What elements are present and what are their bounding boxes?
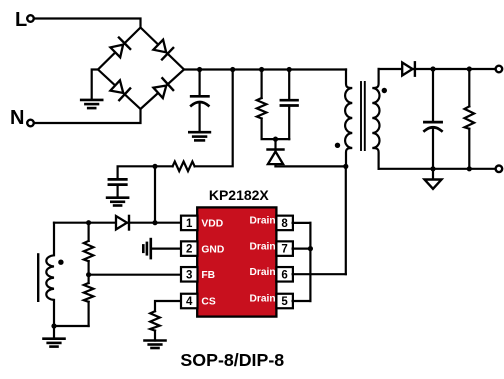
wire secondary bottom rail (379, 168, 496, 170)
diode D1 bridge top-left (110, 38, 130, 59)
node junction rail-snubberC (287, 67, 292, 72)
wire CS resistor to ground (154, 331, 156, 341)
wire divider middle (87, 261, 89, 283)
pin 2 box (181, 241, 198, 256)
pin 5 box (276, 294, 293, 309)
svg-text:1: 1 (186, 218, 193, 230)
wire snubber C bottom lead (288, 106, 290, 140)
wire output resistor top lead (468, 69, 470, 106)
resistor R6 output load (465, 106, 475, 128)
node junction vdd feed / vdd line (152, 164, 157, 169)
diode D4 bridge bottom-right (153, 78, 173, 99)
svg-text:KP2182X: KP2182X (209, 187, 270, 203)
terminal N (27, 120, 34, 127)
ground (VDD bypass cap) (107, 198, 128, 206)
wire resistor to cap corner (118, 166, 173, 179)
diode D5 VDD rectifier (116, 216, 129, 230)
wire pin 2 to ground (151, 248, 181, 250)
diode D2 bridge top-right (153, 39, 173, 60)
aux winding T2 with leads (46, 223, 54, 326)
wire bridge left vertex to ground (92, 70, 98, 100)
wire snubber C top lead (288, 70, 290, 101)
terminal output plus (496, 66, 503, 73)
wire VDD feed from rail down and left (195, 70, 233, 167)
wire drain riser vertical (345, 166, 347, 274)
wire aux bottom (54, 325, 89, 327)
diode D7 output rectifier (402, 62, 415, 75)
transformer T1 primary winding (345, 70, 352, 167)
svg-text:Drain: Drain (250, 216, 276, 227)
wire clamp diode stub (274, 139, 276, 166)
node junction pin7-bus (308, 246, 313, 251)
bridge rectifier diamond wires (98, 28, 184, 110)
wire drain bus vertical (309, 223, 311, 301)
wire pin 7 to drain bus (293, 248, 311, 250)
wire output resistor bottom lead (468, 129, 470, 169)
wire pin 5 to drain bus (293, 300, 311, 302)
node junction aux ground (51, 323, 56, 328)
wire divider top lead (87, 223, 89, 241)
wire snubber R top lead (261, 70, 263, 99)
svg-text:6: 6 (281, 269, 287, 281)
node junction outcap bottom (430, 166, 435, 171)
svg-text:7: 7 (281, 244, 287, 256)
wire N to bridge bottom (35, 109, 141, 123)
node junction outcap top (430, 66, 435, 71)
svg-text:SOP-8/DIP-8: SOP-8/DIP-8 (180, 350, 284, 370)
svg-text:CS: CS (201, 297, 215, 308)
ground (pin 2, rotated) (143, 239, 151, 258)
node junction outres bottom (467, 166, 472, 171)
pin 3 box (181, 267, 198, 282)
pin 6 box (276, 267, 293, 282)
wire drain node horizontal (276, 165, 346, 167)
node junction FB tap (86, 272, 91, 277)
wire L to bridge top (35, 19, 141, 28)
capacitor C4 output (polarized) (424, 122, 441, 131)
svg-text:2: 2 (186, 244, 192, 256)
wire DC top rail (184, 68, 346, 70)
svg-text:Drain: Drain (250, 241, 276, 252)
transformer T1 secondary phase dot (382, 88, 387, 93)
wire bulk cap top lead (199, 70, 201, 97)
node junction rail-bulkcap (197, 67, 202, 72)
svg-text:3: 3 (186, 269, 192, 281)
wire snubber R bottom lead and clamp bottom (262, 119, 290, 140)
node junction outres top (467, 66, 472, 71)
node junction divider top (86, 220, 91, 225)
transformer T1 primary phase dot (335, 143, 340, 148)
transformer T1 core lines (361, 82, 365, 150)
transformer T1 secondary winding (372, 69, 379, 169)
node junction rail-vddfeed (230, 67, 235, 72)
wire bulk cap bottom lead (199, 103, 201, 132)
aux winding phase dot (58, 260, 63, 265)
resistor R1 VDD feed (173, 162, 195, 172)
aux winding core bar (37, 254, 39, 300)
capacitor C1 bulk (polarized) (191, 96, 208, 105)
svg-text:VDD: VDD (201, 219, 223, 230)
wire stub to ground (53, 326, 55, 339)
terminal L (27, 15, 34, 22)
ground (CS) (145, 341, 166, 349)
svg-text:4: 4 (186, 296, 193, 308)
capacitor C2 VDD bypass (109, 179, 126, 184)
resistor R2 divider upper (84, 241, 94, 261)
ground (secondary, triangle) (425, 180, 442, 189)
node junction vdd line / feed (152, 220, 157, 225)
ground (aux winding) (44, 339, 65, 347)
wire VDD line to pin 1 (54, 222, 181, 224)
svg-text:8: 8 (281, 218, 288, 230)
resistor R5 snubber (257, 98, 267, 119)
diode D3 bridge bottom-left (110, 80, 130, 101)
svg-text:GND: GND (201, 244, 224, 255)
wire divider bottom lead (87, 302, 89, 326)
node junction rail-snubberR (259, 67, 264, 72)
svg-text:5: 5 (281, 296, 288, 308)
resistor R4 CS sense (150, 311, 160, 330)
ground (bridge minus) (81, 100, 102, 108)
svg-text:L: L (15, 9, 27, 31)
pin 7 box (276, 241, 293, 256)
wire cap to ground (116, 185, 118, 198)
svg-text:Drain: Drain (250, 267, 276, 278)
wire output cap top lead (432, 69, 434, 122)
node junction drain-primary (343, 164, 348, 169)
terminal output minus (496, 166, 503, 173)
pin 8 box (276, 216, 293, 231)
wire output cap bottom lead (432, 128, 434, 169)
wire pin 8 to drain bus (293, 222, 311, 224)
node junction clamp-diode (273, 137, 278, 142)
resistor R3 divider lower (84, 283, 94, 302)
wire pin 6 to drain riser (293, 273, 346, 275)
ground (bulk cap) (189, 132, 210, 140)
pin 1 box (181, 216, 198, 231)
svg-text:Drain: Drain (250, 294, 276, 305)
wire FB to pin 3 (89, 274, 181, 276)
diode D6 clamp (pointing up) (268, 150, 284, 165)
pin 4 box (181, 294, 198, 309)
capacitor C3 snubber (281, 100, 298, 105)
IC U1 KP2182X body (197, 207, 276, 316)
wire secondary ground stub (432, 169, 434, 180)
svg-text:FB: FB (201, 270, 215, 281)
wire secondary top to output (379, 68, 496, 70)
wire down to VDD line (154, 166, 156, 222)
wire pin 4 CS (155, 301, 181, 311)
svg-text:N: N (10, 107, 24, 129)
